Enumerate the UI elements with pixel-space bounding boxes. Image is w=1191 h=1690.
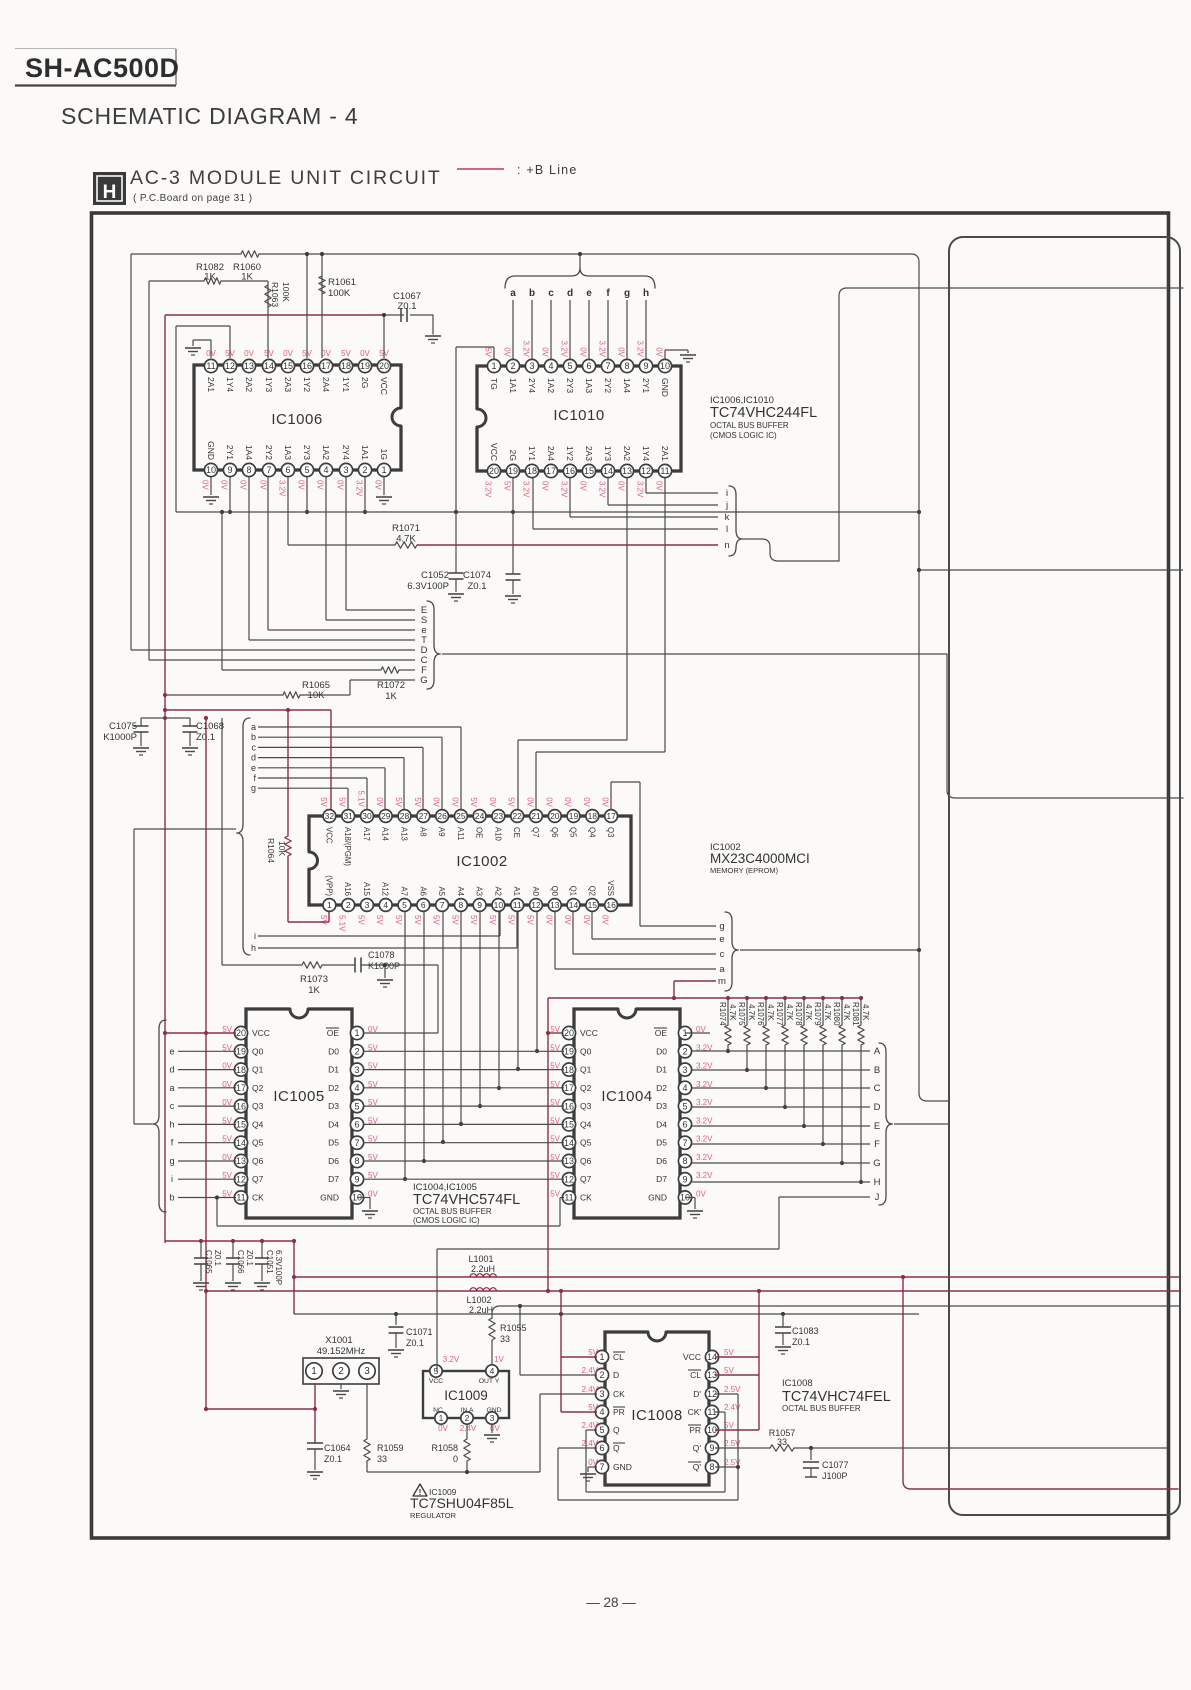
svg-text:R1079: R1079: [813, 1002, 822, 1026]
svg-text:6.3V100P: 6.3V100P: [274, 1250, 283, 1285]
svg-text:A11: A11: [456, 827, 465, 840]
svg-text:0V: 0V: [582, 915, 591, 925]
svg-text:11: 11: [564, 1193, 573, 1203]
svg-text:A9: A9: [437, 827, 446, 837]
svg-text:c: c: [252, 742, 257, 752]
svg-text:15: 15: [588, 900, 598, 910]
svg-text:Q1: Q1: [569, 886, 578, 896]
svg-text:3.2V: 3.2V: [696, 1098, 713, 1107]
svg-text:Q: Q: [613, 1443, 620, 1453]
svg-text:PR: PR: [613, 1407, 625, 1417]
svg-text:1: 1: [311, 1366, 317, 1377]
svg-text:h: h: [169, 1119, 174, 1129]
svg-text:1Y4: 1Y4: [641, 446, 651, 461]
svg-text:5V: 5V: [375, 915, 384, 925]
svg-text:i: i: [171, 1174, 173, 1184]
svg-text:6: 6: [354, 1120, 359, 1130]
svg-text:3.2V: 3.2V: [696, 1171, 713, 1180]
svg-text:21: 21: [531, 811, 541, 821]
svg-text:18: 18: [588, 811, 598, 821]
svg-text:8: 8: [682, 1156, 687, 1166]
svg-text:j: j: [725, 500, 728, 511]
svg-text:D7: D7: [656, 1174, 667, 1184]
svg-text:i: i: [726, 488, 728, 499]
svg-text:13: 13: [564, 1156, 574, 1166]
svg-text:Q6: Q6: [252, 1156, 264, 1166]
svg-text:C1075: C1075: [109, 721, 137, 732]
svg-text:0V: 0V: [503, 347, 512, 357]
svg-text:GND: GND: [660, 378, 670, 397]
svg-text:D4: D4: [656, 1119, 667, 1129]
svg-text:33: 33: [777, 1437, 787, 1447]
svg-text:100K: 100K: [281, 282, 291, 302]
svg-text:19: 19: [236, 1047, 246, 1057]
svg-text:5V: 5V: [469, 797, 478, 807]
svg-text:3.2V: 3.2V: [696, 1153, 713, 1162]
svg-text:0V: 0V: [438, 1424, 448, 1433]
svg-text:C1064: C1064: [324, 1443, 351, 1453]
svg-text:5V: 5V: [724, 1348, 734, 1357]
svg-text:12: 12: [564, 1174, 574, 1184]
svg-text:Z0.1: Z0.1: [406, 1338, 424, 1348]
svg-text:D: D: [613, 1370, 619, 1380]
svg-text:C1066: C1066: [236, 1250, 245, 1274]
svg-text:5V: 5V: [484, 347, 493, 357]
svg-text:R1076: R1076: [756, 1002, 765, 1026]
svg-text:Z0.1: Z0.1: [397, 301, 416, 312]
svg-text:3: 3: [365, 900, 370, 910]
svg-text:R1074: R1074: [718, 1002, 727, 1026]
svg-text:11: 11: [660, 466, 669, 476]
svg-text:1A4: 1A4: [622, 378, 632, 393]
svg-text:CK: CK: [252, 1193, 264, 1203]
svg-text:17: 17: [236, 1083, 246, 1093]
svg-text:2: 2: [338, 1366, 344, 1377]
svg-text:17: 17: [606, 811, 616, 821]
svg-text:D6: D6: [656, 1156, 667, 1166]
svg-text:Q4: Q4: [587, 827, 596, 838]
svg-text:IC1010: IC1010: [553, 407, 604, 424]
svg-text:0V: 0V: [544, 915, 553, 925]
svg-text:27: 27: [419, 811, 429, 821]
svg-text:15: 15: [584, 466, 594, 476]
svg-text:5V: 5V: [319, 797, 328, 807]
svg-text:5V: 5V: [469, 915, 478, 925]
svg-text:D5: D5: [656, 1138, 667, 1148]
svg-text:8: 8: [709, 1462, 714, 1472]
svg-text:13: 13: [236, 1156, 246, 1166]
svg-text:GND: GND: [206, 441, 216, 460]
svg-text:10: 10: [206, 465, 216, 475]
svg-text:2A2: 2A2: [244, 377, 254, 392]
svg-text:1A3: 1A3: [283, 445, 293, 460]
svg-text:13: 13: [244, 361, 254, 371]
svg-text:3.2V: 3.2V: [560, 341, 569, 358]
svg-text:Q5: Q5: [580, 1138, 592, 1148]
svg-text:CK: CK: [613, 1389, 625, 1399]
svg-text:18: 18: [527, 466, 537, 476]
svg-text:10: 10: [494, 900, 504, 910]
svg-text:D1: D1: [656, 1065, 667, 1075]
svg-text:g: g: [169, 1156, 174, 1166]
svg-text:D7: D7: [328, 1174, 339, 1184]
svg-text:A14: A14: [381, 827, 390, 842]
svg-text:Q4: Q4: [580, 1119, 592, 1129]
svg-text:C1071: C1071: [406, 1327, 433, 1337]
svg-text:5: 5: [682, 1101, 687, 1111]
svg-text:7: 7: [682, 1138, 687, 1148]
svg-text:6: 6: [421, 900, 426, 910]
svg-text:A1: A1: [512, 886, 521, 896]
svg-text:a: a: [510, 288, 516, 299]
svg-text:12: 12: [236, 1174, 246, 1184]
svg-text:e: e: [169, 1046, 174, 1056]
svg-text:0V: 0V: [617, 481, 626, 491]
svg-text:33: 33: [377, 1454, 387, 1464]
svg-text:VCC: VCC: [429, 1378, 443, 1385]
svg-text:19: 19: [360, 361, 370, 371]
svg-text:2: 2: [346, 900, 351, 910]
svg-text:1Y2: 1Y2: [565, 446, 575, 461]
svg-text:m: m: [718, 976, 726, 987]
svg-text:CE: CE: [512, 827, 521, 838]
svg-text:R1061: R1061: [328, 277, 356, 288]
svg-text:4: 4: [354, 1083, 359, 1093]
svg-text:0V: 0V: [432, 797, 441, 807]
svg-text:3.2V: 3.2V: [355, 480, 364, 497]
svg-text:IC1004: IC1004: [601, 1088, 652, 1105]
svg-text:3: 3: [599, 1389, 604, 1399]
svg-text:5: 5: [304, 465, 309, 475]
svg-text:9: 9: [709, 1443, 714, 1453]
svg-text:d: d: [567, 288, 573, 299]
svg-text:SH-AC500D: SH-AC500D: [25, 53, 180, 83]
svg-text:0V: 0V: [239, 480, 248, 490]
svg-text:Q6: Q6: [580, 1156, 592, 1166]
svg-text:17: 17: [546, 466, 556, 476]
svg-text:TC74VHC244FL: TC74VHC244FL: [710, 405, 817, 421]
svg-text:VSS: VSS: [606, 880, 615, 896]
svg-text:23: 23: [494, 811, 504, 821]
svg-text:k: k: [725, 512, 730, 523]
svg-text:5V: 5V: [588, 1403, 598, 1412]
svg-text:3: 3: [354, 1065, 359, 1075]
svg-text:7: 7: [266, 465, 271, 475]
svg-text:3: 3: [364, 1366, 370, 1377]
svg-text:H: H: [874, 1177, 881, 1188]
svg-text:5: 5: [599, 1425, 604, 1435]
svg-text:0V: 0V: [526, 797, 535, 807]
svg-text:R1078: R1078: [794, 1002, 803, 1026]
svg-text:Z0.1: Z0.1: [324, 1454, 342, 1464]
svg-text:5V: 5V: [413, 915, 422, 925]
svg-text:6: 6: [586, 361, 591, 371]
svg-text:5V: 5V: [338, 797, 347, 807]
svg-text:15: 15: [283, 361, 293, 371]
svg-text:Q: Q: [613, 1425, 620, 1435]
svg-text:GND: GND: [320, 1193, 339, 1203]
svg-text:3.2V: 3.2V: [522, 481, 531, 498]
svg-text:Q6: Q6: [550, 827, 559, 837]
svg-text:2A4: 2A4: [321, 377, 331, 392]
svg-text:IC1005: IC1005: [273, 1088, 324, 1105]
svg-text:2Y1: 2Y1: [225, 445, 235, 460]
svg-text:5V: 5V: [526, 915, 535, 925]
svg-text:3.2V: 3.2V: [696, 1135, 713, 1144]
svg-text:OE: OE: [655, 1028, 668, 1038]
svg-text:12: 12: [531, 900, 541, 910]
svg-text:b: b: [529, 288, 535, 299]
svg-text:0V: 0V: [544, 797, 553, 807]
svg-text:VCC: VCC: [489, 443, 499, 461]
svg-text:h: h: [643, 288, 649, 299]
svg-text:IC1008: IC1008: [782, 1378, 813, 1389]
svg-text:e: e: [586, 288, 592, 299]
svg-text:29: 29: [381, 811, 391, 821]
svg-text:4: 4: [383, 900, 388, 910]
svg-text:J100P: J100P: [822, 1471, 848, 1481]
svg-text:i: i: [254, 931, 256, 941]
svg-text:2: 2: [682, 1047, 687, 1057]
svg-text:3: 3: [490, 1413, 495, 1423]
svg-text:2Y4: 2Y4: [527, 378, 537, 393]
svg-text:1Y2: 1Y2: [302, 377, 312, 392]
svg-text:49.152MHz: 49.152MHz: [317, 1346, 366, 1357]
svg-text:0V: 0V: [201, 480, 210, 490]
svg-text:OE: OE: [475, 827, 484, 838]
svg-text:2Y3: 2Y3: [302, 445, 312, 460]
svg-text:A13: A13: [400, 827, 409, 841]
svg-text:16: 16: [236, 1101, 246, 1111]
svg-text:A17: A17: [362, 827, 371, 841]
svg-text:Z0.1: Z0.1: [245, 1250, 254, 1267]
svg-text:8: 8: [459, 900, 464, 910]
svg-text:1Y4: 1Y4: [225, 377, 235, 392]
svg-text:3.2V: 3.2V: [522, 341, 531, 358]
svg-text:1Y3: 1Y3: [264, 377, 274, 392]
svg-text:G: G: [873, 1158, 880, 1169]
svg-text:4: 4: [548, 361, 553, 371]
svg-text:0V: 0V: [374, 480, 383, 490]
svg-text:A18/(PGM): A18/(PGM): [343, 827, 352, 866]
svg-text:TC74VHC574FL: TC74VHC574FL: [413, 1192, 520, 1208]
svg-text:CK': CK': [688, 1407, 702, 1417]
svg-text:3.2V: 3.2V: [696, 1116, 713, 1125]
svg-text:5V: 5V: [394, 797, 403, 807]
svg-text:1A3: 1A3: [584, 378, 594, 393]
svg-text:4.7K: 4.7K: [728, 1004, 737, 1021]
svg-text:Q2: Q2: [252, 1083, 264, 1093]
svg-text:10K: 10K: [277, 841, 287, 856]
svg-text:7: 7: [599, 1462, 604, 1472]
svg-text:D2: D2: [656, 1083, 667, 1093]
svg-text:D': D': [693, 1389, 701, 1399]
svg-text:R1058: R1058: [431, 1443, 458, 1453]
svg-text:15: 15: [236, 1120, 246, 1130]
svg-text:A4: A4: [456, 886, 465, 896]
svg-text:18: 18: [341, 361, 351, 371]
svg-text:a: a: [169, 1083, 174, 1093]
svg-text:5V: 5V: [588, 1348, 598, 1357]
svg-text:5V: 5V: [394, 915, 403, 925]
svg-text:A6: A6: [418, 886, 427, 896]
svg-text:5V: 5V: [357, 915, 366, 925]
svg-text:4.7K: 4.7K: [861, 1004, 870, 1021]
svg-text:0V: 0V: [321, 349, 331, 358]
svg-text:6: 6: [599, 1443, 604, 1453]
svg-text:C: C: [874, 1083, 881, 1094]
svg-text:1: 1: [599, 1352, 604, 1362]
svg-text:16: 16: [302, 361, 312, 371]
svg-text:26: 26: [437, 811, 447, 821]
svg-text:5V: 5V: [488, 915, 497, 925]
svg-text:1A1: 1A1: [508, 378, 518, 393]
svg-text:g: g: [251, 783, 256, 793]
svg-text:16: 16: [565, 466, 575, 476]
svg-text:R1063: R1063: [270, 282, 280, 307]
svg-text:3.2V: 3.2V: [598, 341, 607, 358]
svg-text:A10: A10: [493, 827, 502, 842]
svg-text:OUT Y: OUT Y: [479, 1378, 500, 1385]
svg-text:Q4: Q4: [252, 1119, 264, 1129]
svg-text:6: 6: [285, 465, 290, 475]
svg-text:7: 7: [605, 361, 610, 371]
svg-text:1K: 1K: [308, 985, 320, 996]
svg-text:b: b: [169, 1193, 174, 1203]
svg-text:B: B: [874, 1065, 880, 1076]
svg-text:H: H: [103, 182, 117, 203]
svg-text:12: 12: [225, 361, 235, 371]
svg-text:20: 20: [379, 361, 389, 371]
svg-text:5V: 5V: [341, 349, 351, 358]
svg-text:3: 3: [343, 465, 348, 475]
svg-text:9: 9: [643, 361, 648, 371]
svg-text:3.2V: 3.2V: [696, 1062, 713, 1071]
svg-text:0V: 0V: [579, 347, 588, 357]
svg-text:2Y3: 2Y3: [565, 378, 575, 393]
svg-text:a: a: [251, 722, 256, 732]
svg-text:1A4: 1A4: [244, 445, 254, 460]
svg-text:D3: D3: [656, 1101, 667, 1111]
svg-text:0V: 0V: [244, 349, 254, 358]
svg-text:2A4: 2A4: [546, 446, 556, 461]
svg-text:2G: 2G: [360, 377, 370, 388]
svg-text:0V: 0V: [601, 797, 610, 807]
svg-text:3.2V: 3.2V: [636, 481, 645, 498]
svg-text:3.2V: 3.2V: [560, 481, 569, 498]
svg-text:2.2uH: 2.2uH: [471, 1264, 495, 1274]
svg-text:l: l: [726, 524, 728, 535]
svg-text:CL: CL: [690, 1370, 701, 1380]
svg-text:1Y1: 1Y1: [341, 377, 351, 392]
svg-text:A5: A5: [437, 886, 446, 896]
svg-text:g: g: [719, 921, 724, 932]
svg-text:3.2V: 3.2V: [636, 341, 645, 358]
svg-text:5V: 5V: [264, 349, 274, 358]
svg-text:19: 19: [564, 1047, 574, 1057]
svg-text:REGULATOR: REGULATOR: [410, 1511, 457, 1520]
svg-text:9: 9: [354, 1174, 359, 1184]
svg-text:R1073: R1073: [300, 974, 328, 985]
svg-text:16: 16: [606, 900, 616, 910]
svg-text:D5: D5: [328, 1138, 339, 1148]
svg-text:11: 11: [206, 361, 215, 371]
svg-text:R1071: R1071: [392, 523, 420, 534]
svg-text:OE: OE: [327, 1028, 340, 1038]
svg-text:16: 16: [564, 1101, 574, 1111]
svg-text:Q': Q': [693, 1443, 702, 1453]
svg-text:Q2: Q2: [580, 1083, 592, 1093]
svg-text:1K: 1K: [241, 272, 253, 283]
svg-text:2: 2: [354, 1047, 359, 1057]
svg-text:4.7K: 4.7K: [785, 1004, 794, 1021]
svg-text:Q0: Q0: [252, 1046, 264, 1056]
svg-text:e: e: [251, 763, 256, 773]
svg-text:1A2: 1A2: [321, 445, 331, 460]
svg-text:e: e: [719, 934, 724, 945]
svg-text:18: 18: [236, 1065, 246, 1075]
svg-text:2: 2: [362, 465, 367, 475]
svg-text:4.7K: 4.7K: [766, 1004, 775, 1021]
svg-text:0V: 0V: [655, 481, 664, 491]
svg-text:A0: A0: [531, 886, 540, 896]
svg-text:0V: 0V: [655, 347, 664, 357]
svg-text:13: 13: [622, 466, 632, 476]
svg-text:IC1002: IC1002: [456, 853, 507, 870]
svg-text:Z0.1: Z0.1: [213, 1250, 222, 1267]
svg-text:Q5: Q5: [252, 1138, 264, 1148]
svg-text:5.1V: 5.1V: [338, 915, 347, 932]
svg-text:TC74VHC74FEL: TC74VHC74FEL: [782, 1389, 891, 1405]
svg-text:12: 12: [641, 466, 651, 476]
svg-text:R1059: R1059: [377, 1443, 404, 1453]
svg-text:R1055: R1055: [500, 1323, 527, 1333]
svg-text:30: 30: [362, 811, 372, 821]
svg-text:20: 20: [236, 1028, 246, 1038]
svg-text:0V: 0V: [488, 797, 497, 807]
svg-text:Q7: Q7: [580, 1174, 592, 1184]
svg-text:a: a: [719, 964, 725, 975]
svg-text:h: h: [251, 943, 256, 953]
svg-text:0V: 0V: [541, 481, 550, 491]
svg-text:C1052: C1052: [421, 570, 449, 581]
svg-text:Q0: Q0: [550, 886, 559, 897]
svg-text:1: 1: [381, 465, 386, 475]
svg-text:E: E: [874, 1121, 880, 1132]
svg-text:A2: A2: [493, 886, 502, 896]
svg-text:2.4V: 2.4V: [582, 1421, 599, 1430]
svg-text:OCTAL BUS BUFFER: OCTAL BUS BUFFER: [782, 1404, 861, 1413]
svg-text:1G: 1G: [379, 449, 389, 460]
svg-text:AC-3 MODULE UNIT CIRCUIT: AC-3 MODULE UNIT CIRCUIT: [130, 167, 442, 189]
svg-text:7: 7: [354, 1138, 359, 1148]
svg-text:1A1: 1A1: [360, 445, 370, 460]
svg-text:5V: 5V: [413, 797, 422, 807]
svg-text:15: 15: [564, 1120, 574, 1130]
svg-text:L1002: L1002: [466, 1295, 491, 1305]
svg-text:GND: GND: [648, 1193, 667, 1203]
svg-text:5: 5: [354, 1101, 359, 1111]
svg-text:F: F: [874, 1139, 880, 1150]
svg-text:5V: 5V: [550, 1190, 560, 1199]
svg-text:4: 4: [323, 465, 328, 475]
svg-text:D3: D3: [328, 1101, 339, 1111]
svg-text:C1083: C1083: [792, 1326, 819, 1336]
svg-text:g: g: [624, 288, 630, 299]
svg-text:VCC: VCC: [683, 1352, 701, 1362]
svg-text:SCHEMATIC DIAGRAM - 4: SCHEMATIC DIAGRAM - 4: [61, 103, 359, 129]
svg-text:0V: 0V: [450, 797, 459, 807]
